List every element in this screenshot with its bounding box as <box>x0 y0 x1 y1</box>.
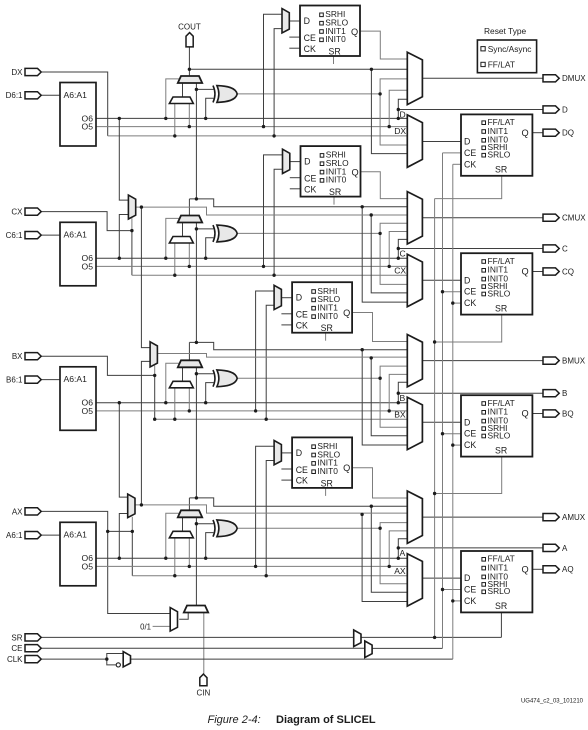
svg-text:CE: CE <box>464 585 476 595</box>
svg-text:INIT0: INIT0 <box>317 311 338 321</box>
svg-text:SR: SR <box>495 601 507 611</box>
svg-text:D: D <box>562 105 568 114</box>
svg-text:UG474_c2_03_101210: UG474_c2_03_101210 <box>521 699 584 705</box>
svg-text:SR: SR <box>321 478 333 488</box>
svg-text:Diagram of SLICEL: Diagram of SLICEL <box>276 714 376 726</box>
svg-text:SR: SR <box>495 165 507 175</box>
svg-text:D: D <box>400 110 406 120</box>
svg-text:AMUX: AMUX <box>562 513 586 522</box>
svg-text:CE: CE <box>296 310 308 320</box>
svg-text:A: A <box>562 544 568 553</box>
svg-text:Q: Q <box>522 128 529 138</box>
svg-text:SRLO: SRLO <box>488 150 511 160</box>
svg-text:SRLO: SRLO <box>488 586 511 596</box>
svg-text:SRLO: SRLO <box>488 430 511 440</box>
svg-text:O5: O5 <box>82 261 94 271</box>
svg-text:B6:1: B6:1 <box>6 376 23 385</box>
svg-text:BX: BX <box>394 409 406 419</box>
svg-text:Q: Q <box>522 409 529 419</box>
svg-text:CK: CK <box>304 44 316 54</box>
svg-text:0/1: 0/1 <box>140 622 151 631</box>
svg-text:CQ: CQ <box>562 267 574 276</box>
svg-text:D: D <box>304 157 310 167</box>
svg-text:CX: CX <box>11 208 23 217</box>
svg-text:SR: SR <box>495 445 507 455</box>
svg-text:SR: SR <box>495 303 507 313</box>
svg-text:CX: CX <box>394 265 406 275</box>
svg-text:CK: CK <box>296 476 308 486</box>
svg-text:Q: Q <box>351 27 358 37</box>
svg-text:CE: CE <box>304 33 316 43</box>
svg-text:INIT0: INIT0 <box>317 466 338 476</box>
svg-text:BX: BX <box>12 352 23 361</box>
svg-text:SR: SR <box>329 47 341 57</box>
svg-text:AX: AX <box>394 566 406 576</box>
svg-text:CE: CE <box>11 644 22 653</box>
svg-text:Reset Type: Reset Type <box>484 26 527 36</box>
svg-text:DX: DX <box>394 126 406 136</box>
svg-text:C: C <box>400 249 406 259</box>
svg-text:B: B <box>400 393 406 403</box>
svg-text:BMUX: BMUX <box>562 357 586 366</box>
svg-text:SRLO: SRLO <box>488 288 511 298</box>
svg-text:D: D <box>304 16 310 26</box>
svg-text:A6:A1: A6:A1 <box>64 90 88 100</box>
svg-text:Q: Q <box>343 463 350 473</box>
svg-text:CE: CE <box>464 287 476 297</box>
svg-text:A6:A1: A6:A1 <box>64 374 88 384</box>
svg-text:FF/LAT: FF/LAT <box>488 60 515 70</box>
svg-text:D6:1: D6:1 <box>6 91 23 100</box>
svg-text:AQ: AQ <box>562 565 574 574</box>
svg-text:INIT0: INIT0 <box>325 34 346 44</box>
svg-text:A6:A1: A6:A1 <box>64 230 88 240</box>
svg-text:CE: CE <box>464 148 476 158</box>
svg-text:A6:A1: A6:A1 <box>64 530 88 540</box>
svg-text:INIT0: INIT0 <box>326 175 347 185</box>
svg-text:Q: Q <box>522 565 529 575</box>
svg-text:CE: CE <box>296 465 308 475</box>
svg-text:CK: CK <box>464 596 476 606</box>
svg-text:A6:1: A6:1 <box>6 531 23 540</box>
svg-text:D: D <box>464 417 470 427</box>
svg-text:CLK: CLK <box>7 655 23 664</box>
svg-text:AX: AX <box>12 507 23 516</box>
svg-text:SR: SR <box>329 187 341 197</box>
svg-text:CMUX: CMUX <box>562 214 586 223</box>
svg-text:D: D <box>296 448 302 458</box>
svg-text:SR: SR <box>321 323 333 333</box>
svg-text:Q: Q <box>352 167 359 177</box>
svg-text:O5: O5 <box>82 122 94 132</box>
svg-text:C6:1: C6:1 <box>6 231 23 240</box>
svg-text:BQ: BQ <box>562 409 574 418</box>
svg-text:CK: CK <box>464 440 476 450</box>
svg-text:CE: CE <box>464 429 476 439</box>
svg-text:D: D <box>464 573 470 583</box>
svg-text:D: D <box>296 293 302 303</box>
svg-text:Q: Q <box>522 267 529 277</box>
svg-text:O5: O5 <box>82 561 94 571</box>
svg-text:DX: DX <box>11 68 23 77</box>
svg-text:COUT: COUT <box>178 23 201 32</box>
svg-text:SR: SR <box>11 633 22 642</box>
svg-text:C: C <box>562 244 568 253</box>
svg-text:D: D <box>464 137 470 147</box>
svg-text:Q: Q <box>343 308 350 318</box>
svg-text:CE: CE <box>304 174 316 184</box>
svg-text:Sync/Async: Sync/Async <box>488 44 532 54</box>
svg-text:DMUX: DMUX <box>562 74 586 83</box>
svg-text:O5: O5 <box>82 406 94 416</box>
svg-text:B: B <box>562 389 567 398</box>
svg-text:D: D <box>464 275 470 285</box>
svg-text:CK: CK <box>304 184 316 194</box>
svg-text:CIN: CIN <box>197 688 211 697</box>
svg-text:CK: CK <box>464 159 476 169</box>
svg-text:CK: CK <box>464 298 476 308</box>
svg-text:A: A <box>400 548 406 558</box>
svg-text:CK: CK <box>296 321 308 331</box>
svg-text:DQ: DQ <box>562 129 574 138</box>
svg-text:Figure 2-4:: Figure 2-4: <box>208 714 261 726</box>
